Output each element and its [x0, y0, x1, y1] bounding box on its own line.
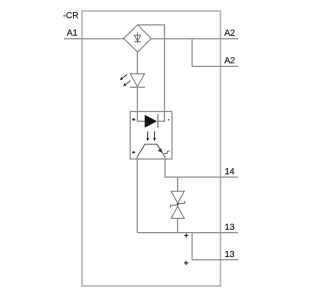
TVS center junction dot: [177, 203, 179, 205]
wire emitter down and terminal 14 line: [165, 157, 238, 177]
wire A1: [64, 38, 124, 40]
LED indicator: [130, 74, 145, 88]
terminal label A1: [67, 30, 77, 36]
optocoupler LED: [145, 115, 157, 128]
terminal label 13 second: [225, 251, 234, 257]
terminal label A2: [224, 30, 234, 36]
phototransistor emitter step symbol: [164, 151, 170, 154]
wire bridge top to optocoupler LED cathode: [138, 25, 165, 121]
terminal label 13: [225, 224, 234, 230]
wire indicator LED to optocoupler anode: [137, 87, 144, 121]
phototransistor: [137, 144, 165, 157]
wire terminal 13 branch (riser and second stub): [192, 233, 238, 260]
optocoupler box: [130, 112, 172, 160]
pin dot bottom left: [132, 151, 135, 153]
terminal label 14: [225, 168, 234, 174]
wire bridge bottom to indicator LED: [136, 52, 138, 74]
polarity plus at 13: [184, 233, 188, 237]
terminal 13 line: [137, 232, 238, 234]
diode inside bridge: [134, 32, 141, 43]
wire TVS bottom: [177, 218, 179, 232]
pin dot top left: [132, 118, 135, 120]
wire A2: [151, 38, 238, 40]
terminal label A2 second: [224, 57, 234, 63]
label -CR: [63, 12, 78, 18]
wire collector down to terminal 13 line: [136, 157, 138, 233]
polarity plus at second 13: [184, 261, 188, 265]
optocoupler LED cathode bar: [157, 114, 159, 127]
TVS suppressor diode: [171, 191, 185, 218]
bridge rectifier diamond: [124, 25, 152, 52]
wire TVS top: [177, 177, 179, 191]
pin dot top right: [168, 119, 170, 121]
light coupling arrows: [146, 131, 156, 141]
phototransistor emitter arrowhead: [158, 148, 162, 153]
wire A2 branch (riser and second stub): [192, 39, 238, 67]
enclosure outline: [82, 11, 221, 286]
LED emission arrows: [120, 74, 131, 86]
